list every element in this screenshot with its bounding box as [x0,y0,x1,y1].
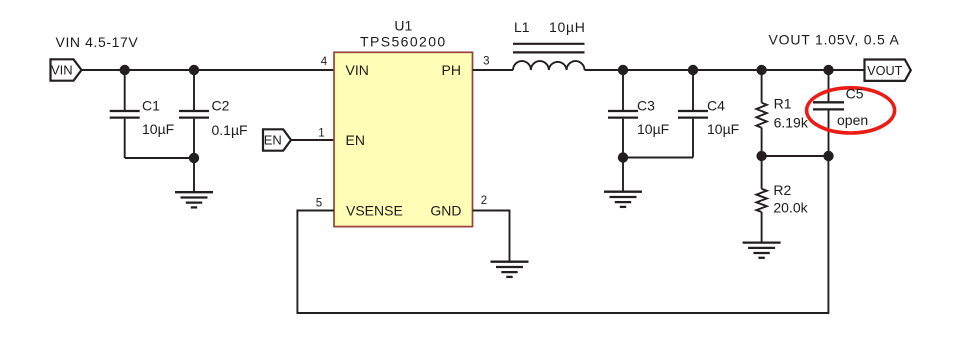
capacitor C1 [110,70,140,158]
node junction C1 top [120,65,130,75]
capacitor C4 [678,70,708,158]
net label VOUT 1.05V, 0.5 A [769,32,900,48]
svg-text:L1: L1 [514,19,530,35]
port tag EN [263,129,291,150]
svg-text:VIN: VIN [346,62,369,78]
svg-text:open: open [837,112,868,128]
node junction R1 top [756,65,766,75]
svg-text:10µF: 10µF [142,121,174,137]
svg-text:6.19k: 6.19k [774,115,809,131]
wire R1 bottom to C5 bottom [762,155,829,157]
node junction C3 top [618,65,628,75]
svg-text:R1: R1 [774,96,792,112]
port tag VOUT [865,60,911,81]
svg-text:10µH: 10µH [549,19,586,35]
pin number 2 [481,195,487,207]
label C1 value [142,97,174,137]
svg-text:10µF: 10µF [707,121,739,137]
svg-text:2: 2 [481,195,487,207]
label R1 value [774,96,809,131]
pin name PH [442,62,461,78]
pin name GND [430,203,461,219]
pin name VSENSE [346,203,403,219]
wire VSENSE feedback loop [297,156,828,313]
svg-text:PH: PH [442,62,461,78]
resistor R2 [756,156,766,242]
pin number 5 [316,197,322,209]
svg-text:VOUT: VOUT [867,64,902,78]
svg-text:3: 3 [483,56,489,68]
svg-text:C3: C3 [637,97,655,113]
node junction C5 bottom [823,151,833,161]
node junction C5 top [823,65,833,75]
svg-text:5: 5 [316,197,322,209]
svg-text:GND: GND [430,203,461,219]
ground below C2 [175,158,213,207]
ground below R2 [743,243,781,258]
svg-text:VIN 4.5-17V: VIN 4.5-17V [56,34,139,50]
svg-text:20.0k: 20.0k [773,200,808,216]
label C5 value open [837,86,868,128]
svg-text:4: 4 [321,56,328,68]
svg-text:EN: EN [346,132,365,148]
net label VIN 4.5-17V [56,34,139,50]
label C2 value [212,97,248,138]
ground below C3 [604,158,642,207]
label R2 value [773,182,808,216]
ground below U1 GND [491,262,529,277]
svg-text:R2: R2 [773,182,791,198]
wire inductor L1 to VOUT tag [585,69,865,71]
node junction C2 bottom [189,153,199,163]
svg-text:U1: U1 [394,18,412,34]
svg-text:C2: C2 [212,97,230,113]
pin number 1 [318,128,324,140]
red highlight ellipse around C5 [807,88,895,133]
svg-text:TPS560200: TPS560200 [360,33,447,49]
svg-text:VIN: VIN [51,63,73,78]
wire C3 bottom to C4 bottom [623,157,693,159]
node junction C2 top [189,65,199,75]
svg-text:C5: C5 [846,86,864,102]
svg-text:VOUT 1.05V, 0.5 A: VOUT 1.05V, 0.5 A [769,32,900,48]
inductor L1 winding [513,61,585,70]
pin number 4 [321,56,328,68]
pin number 3 [483,56,489,68]
op-amp U1 TPS560200 body [334,52,473,226]
wire EN tag to U1 pin 1 [291,139,334,141]
node junction R1 bottom [756,151,766,161]
wire C1 bottom to C2 bottom [125,157,194,159]
pin name EN [346,132,365,148]
svg-text:1: 1 [318,128,324,140]
svg-text:VSENSE: VSENSE [346,203,403,219]
wire U1 PH to inductor L1 [473,69,514,71]
label C4 value [707,97,739,137]
label U1 part number TPS560200 [360,33,447,49]
svg-text:0.1µF: 0.1µF [212,122,248,138]
node junction C3 bottom [618,152,628,162]
resistor R1 [756,70,766,156]
label L1 value [514,19,586,35]
svg-text:10µF: 10µF [637,121,669,137]
node junction C4 top [688,65,698,75]
wire U1 GND pin to ground [473,211,510,262]
svg-text:C1: C1 [142,97,160,113]
capacitor C5 [813,70,844,156]
port tag VIN [51,59,82,80]
svg-text:EN: EN [264,133,282,148]
label C3 value [637,97,669,137]
capacitor C3 [608,70,638,158]
label U1 reference [394,18,412,34]
svg-text:C4: C4 [707,97,725,113]
wire VIN tag to U1 pin 4 [82,69,335,71]
capacitor C2 [179,70,209,158]
pin name VIN [346,62,369,78]
inductor L1 core bars [513,44,585,53]
